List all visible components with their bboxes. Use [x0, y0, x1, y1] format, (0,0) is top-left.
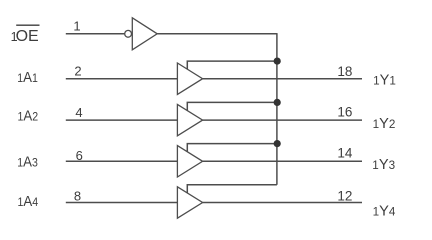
svg-text:1Y2: 1Y2 — [373, 115, 396, 132]
junction: enable bus to U3 — [274, 99, 281, 106]
wire: U5 enable stub and line to bus — [187, 185, 277, 194]
svg-text:2: 2 — [74, 64, 81, 79]
op-amp U5 buffer triangle (channel 4) — [177, 187, 202, 218]
wire: U2 enable stub and line to bus — [187, 61, 277, 70]
wire: 1A1 input (pin 2) — [66, 78, 178, 80]
svg-text:6: 6 — [76, 148, 83, 163]
wire: 1Y3 output (pin 14) — [203, 160, 362, 162]
wire: U3 enable stub and line to bus — [187, 102, 277, 111]
svg-text:1: 1 — [73, 19, 80, 34]
wire: 1A4 input (pin 8) — [66, 202, 178, 204]
svg-text:1A1: 1A1 — [17, 70, 38, 86]
wire: U1 output to enable bus corner — [157, 33, 277, 35]
wire: 1Y2 output (pin 16) — [203, 119, 362, 121]
svg-text:1Y1: 1Y1 — [373, 72, 396, 89]
wire: U4 enable stub and line to bus — [187, 144, 277, 153]
svg-text:1A4: 1A4 — [18, 194, 39, 210]
svg-text:OE: OE — [16, 28, 39, 45]
svg-text:1A2: 1A2 — [18, 109, 39, 125]
wire: 1Y4 output (pin 12) — [203, 202, 362, 204]
junction: enable bus to U4 — [274, 140, 281, 147]
inverter bubble on U1 input — [125, 30, 132, 37]
wire: 1Y1 output (pin 18) — [203, 78, 362, 80]
svg-text:1Y4: 1Y4 — [373, 203, 396, 220]
wire: 1OE input (pin 1) — [66, 33, 125, 35]
op-amp U4 buffer triangle (channel 3) — [177, 146, 202, 177]
node label 1OE — [11, 25, 40, 45]
junction: enable bus to U2 — [274, 58, 281, 65]
wire: enable bus vertical — [276, 33, 278, 185]
svg-text:4: 4 — [75, 105, 82, 120]
op-amp U3 buffer triangle (channel 2) — [177, 104, 202, 135]
svg-text:14: 14 — [337, 145, 353, 160]
op-amp U1 buffer triangle (enable inverter) — [132, 18, 157, 50]
wire: 1A2 input (pin 4) — [66, 119, 178, 121]
svg-text:1Y3: 1Y3 — [372, 156, 395, 173]
svg-text:12: 12 — [337, 188, 352, 203]
op-amp U2 buffer triangle (channel 1) — [177, 63, 202, 94]
svg-text:16: 16 — [337, 104, 352, 119]
svg-text:1A3: 1A3 — [17, 155, 38, 171]
wire: 1A3 input (pin 6) — [66, 160, 178, 162]
svg-text:18: 18 — [337, 64, 352, 79]
svg-text:8: 8 — [74, 188, 81, 203]
